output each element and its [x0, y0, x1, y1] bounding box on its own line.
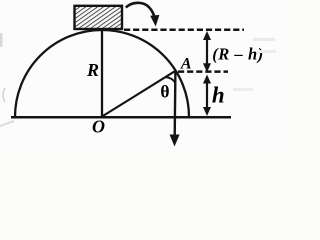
curved arrow [126, 3, 160, 27]
radius R line [101, 30, 103, 117]
svg-text:O: O [92, 117, 105, 137]
hemisphere arc [15, 30, 189, 117]
block (hatched) on top [75, 6, 123, 29]
ground line [11, 116, 231, 119]
h double arrow [203, 75, 211, 117]
top dashed line [124, 29, 244, 32]
faint scan artifacts [0, 33, 3, 47]
svg-text:h: h [212, 83, 225, 108]
theta angle arc [165, 77, 175, 83]
line O to A [102, 71, 176, 117]
lower dashed line (A level) [178, 70, 228, 73]
vertical arrow from A downward [170, 71, 180, 147]
svg-text:θ: θ [160, 82, 169, 102]
svg-text:R: R [86, 60, 99, 80]
svg-text:(R – h): (R – h) [212, 45, 264, 64]
svg-text:A: A [180, 56, 192, 73]
(R - h) double arrow [203, 31, 211, 72]
